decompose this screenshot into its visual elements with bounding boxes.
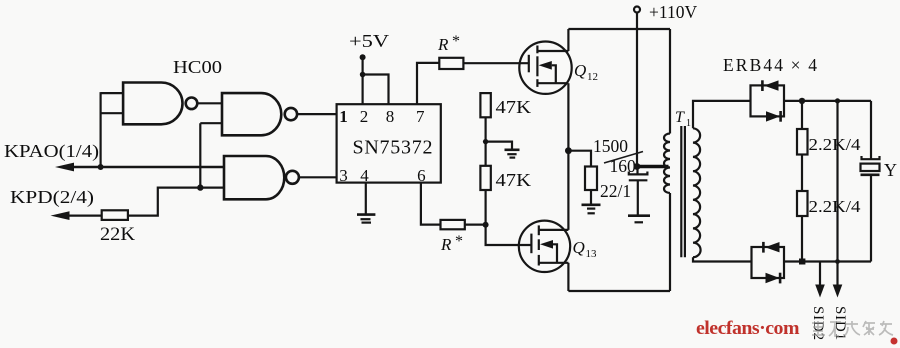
resistor R1 (R*) top: [439, 58, 463, 69]
svg-text:Y: Y: [884, 160, 897, 180]
watermark elecfans.com: [696, 318, 898, 345]
svg-text:6: 6: [417, 166, 426, 185]
wire R2 to Q13 gate: [465, 225, 532, 245]
ground (pin 4): [357, 215, 375, 223]
diode pair D1 D2 (top box): [751, 80, 785, 121]
wire SID1 vertical: [836, 101, 838, 286]
svg-text:2.2K/4: 2.2K/4: [809, 135, 862, 154]
svg-text:7: 7: [416, 107, 425, 126]
wire midpoint to ground: [486, 142, 512, 150]
nand gate U1B: [222, 93, 297, 135]
svg-text:47K: 47K: [496, 170, 532, 190]
svg-text:3: 3: [339, 166, 348, 185]
wire secondary bottom: [693, 257, 752, 261]
wire node A down to R4: [801, 101, 803, 129]
pin 8: [386, 107, 395, 126]
resistor 47K upper: [480, 93, 490, 117]
svg-text:1: 1: [686, 118, 691, 129]
pin 7: [416, 107, 425, 126]
wire R5 to bottom node: [801, 216, 803, 262]
wire 47K chain: [485, 117, 487, 166]
transistor Q12: [519, 41, 571, 93]
wire +110V rail: [568, 28, 670, 30]
wire U1A input tie: [101, 92, 124, 167]
wire 22K to U1C input: [128, 188, 224, 216]
wire U1B output to pin 1: [297, 113, 337, 115]
label R* bottom: [440, 233, 463, 254]
node +5V branch: [360, 72, 366, 78]
driver IC U2 SN75372: [337, 104, 441, 182]
svg-text:ERB44 × 4: ERB44 × 4: [723, 55, 817, 75]
watermark chinese: [812, 321, 893, 337]
wire KPD branch to U1B input: [200, 123, 222, 187]
wire crystal corner down: [870, 101, 872, 159]
resistor R2 (R*) bottom: [441, 220, 465, 229]
svg-text:13: 13: [586, 248, 598, 260]
capacitor C1 1500/160: [629, 167, 648, 181]
svg-text:KPAO(1/4): KPAO(1/4): [4, 141, 99, 162]
svg-text:22/1: 22/1: [600, 181, 631, 201]
transistor Q13: [519, 221, 570, 272]
svg-text:elecfans·com: elecfans·com: [696, 318, 800, 339]
label capacitor value 1500/160: [593, 136, 643, 176]
wire U1A output to U1B input: [197, 102, 222, 104]
wire +5V to pin 2: [362, 57, 364, 104]
pin 3: [339, 166, 348, 185]
node bottom junction: [799, 259, 805, 265]
pin 2: [360, 107, 369, 126]
wire KPAO with arrow: [55, 163, 224, 172]
node center-tap feed: [634, 163, 641, 170]
wire 47K lower to R2 node: [485, 190, 487, 225]
wire node M to R3: [568, 151, 591, 167]
crystal Y: [861, 156, 880, 175]
resistor R3 22/1: [585, 167, 597, 191]
label SID1: [832, 306, 848, 341]
svg-text:2.2K/4: 2.2K/4: [809, 197, 862, 216]
wire secondary top to D1 box: [693, 101, 751, 128]
node A: [799, 98, 805, 104]
node SID1 tap: [835, 98, 840, 103]
arrow SID1: [833, 285, 843, 298]
label R3 value 22/1: [600, 181, 631, 201]
svg-text:2: 2: [360, 107, 369, 126]
wire center tap (thick): [637, 165, 669, 169]
svg-text:+110V: +110V: [649, 2, 697, 22]
svg-text:Q: Q: [573, 238, 585, 257]
label 2.2K/4 upper: [809, 135, 862, 154]
node 47K midpoint: [483, 139, 488, 144]
svg-text:47K: 47K: [496, 97, 532, 117]
wire rail corner down to primary top: [669, 29, 671, 134]
resistor R5 2.2K/4 lower: [797, 191, 808, 216]
svg-text:4: 4: [360, 166, 369, 185]
transformer T1 core: [681, 126, 685, 257]
node SID1 bottom crossing: [835, 259, 840, 264]
wire R1 to Q12 gate: [463, 62, 528, 64]
wire U1C output to pin 3: [299, 176, 337, 178]
wire R3 to ground: [590, 190, 592, 205]
node KPAO-U1A junction: [98, 164, 104, 170]
label 47K upper: [496, 97, 532, 117]
node M: [565, 147, 572, 154]
transformer T1 secondary winding: [693, 128, 701, 257]
pin 4: [360, 166, 369, 185]
label HC00: [173, 57, 222, 77]
node R2-47K junction: [483, 222, 489, 228]
label SID2: [810, 306, 826, 341]
wire Q12 source to node M: [567, 83, 569, 151]
nand gate U1A: [123, 83, 197, 125]
wire pin 6 to R2: [421, 183, 441, 225]
ground (R3): [582, 205, 601, 214]
svg-text:SN75372: SN75372: [353, 137, 433, 159]
svg-text:160: 160: [610, 156, 637, 176]
label net KPAO(1/4): [4, 141, 99, 162]
svg-text:R: R: [440, 235, 452, 254]
resistor 22K: [102, 210, 128, 220]
svg-text:KPD(2/4): KPD(2/4): [10, 187, 94, 208]
transformer T1 primary winding: [664, 134, 670, 194]
svg-text:1: 1: [339, 107, 348, 126]
label 2.2K/4 lower: [809, 197, 862, 216]
svg-text:8: 8: [386, 107, 395, 126]
label 47K lower: [496, 170, 532, 190]
wire +110V feed: [636, 13, 638, 167]
label 22K: [100, 225, 136, 245]
resistor 47K lower: [480, 166, 490, 190]
svg-text:T: T: [675, 109, 685, 126]
svg-text:12: 12: [587, 71, 598, 83]
wire node M to Q13 drain: [567, 151, 569, 230]
node KPD junction: [197, 184, 203, 190]
svg-text:HC00: HC00: [173, 57, 222, 77]
label Q12: [574, 61, 598, 83]
svg-text:Q: Q: [574, 61, 586, 80]
label Y: [884, 160, 897, 180]
svg-text:*: *: [455, 233, 463, 250]
resistor R4 2.2K/4 upper: [797, 129, 808, 155]
label T1: [675, 109, 691, 129]
svg-text:1500: 1500: [593, 136, 628, 156]
svg-text:+5V: +5V: [349, 31, 389, 51]
power +110V terminal: [634, 2, 697, 22]
wire D1 box to node A: [784, 100, 802, 102]
wire bottom rail: [568, 290, 670, 292]
pin 6: [417, 166, 426, 185]
wire crystal to bottom wire: [870, 175, 872, 262]
ground (47K midpoint): [505, 150, 520, 158]
svg-text:22K: 22K: [100, 225, 136, 245]
nand gate U1C: [224, 156, 299, 199]
wire KPD arrow to 22K: [51, 211, 102, 220]
arrow SID2: [815, 262, 825, 298]
label net KPD(2/4): [10, 187, 94, 208]
label R* top: [437, 33, 460, 54]
wire Q13 source down: [567, 263, 569, 291]
label Q13: [573, 238, 598, 260]
svg-text:*: *: [452, 33, 460, 50]
wire node A to crystal corner: [802, 100, 871, 102]
diode pair D3 D4 (bottom box): [752, 242, 785, 284]
svg-text:R: R: [437, 35, 449, 54]
ground (C1): [628, 216, 650, 223]
wire +5V branch to pin 8: [363, 75, 389, 105]
wire R4 to R5: [801, 155, 803, 192]
label ERB44x4: [723, 55, 817, 75]
power +5V terminal: [349, 31, 389, 60]
wire pin 4 to ground: [365, 183, 367, 215]
wire Q12 drain to rail: [567, 29, 569, 51]
wire C1 to ground: [637, 181, 639, 216]
pin 1: [339, 107, 348, 126]
wire primary bottom to rail: [669, 193, 671, 291]
wire bottom return: [784, 260, 871, 262]
wire pin 7 to R1: [417, 63, 439, 104]
